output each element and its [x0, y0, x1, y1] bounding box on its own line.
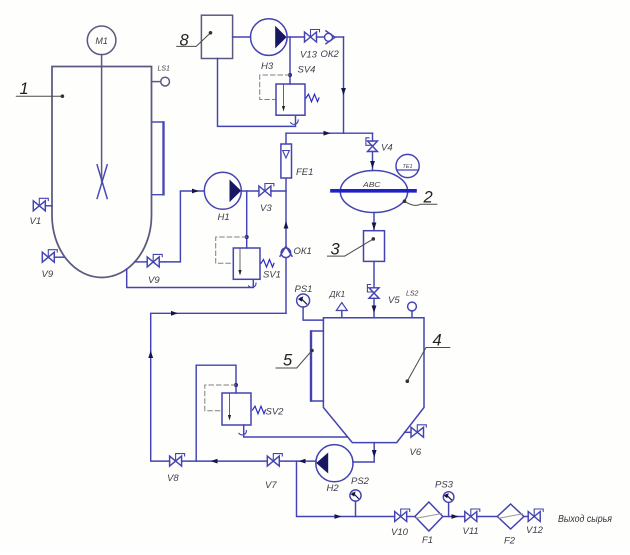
agitator X: [97, 165, 107, 199]
svg-text:2: 2: [423, 189, 433, 207]
wire V3 to riser: [271, 190, 286, 192]
main header wire FE1 to V4 drop: [286, 132, 373, 134]
svg-text:V13: V13: [300, 50, 318, 61]
valve V12: [528, 512, 540, 522]
agitator shaft: [101, 55, 103, 182]
level switch LS1: [152, 81, 161, 83]
SV2 outlet wire to tank 4: [244, 425, 348, 437]
SV1 pilot dashed line: [216, 237, 247, 263]
recirculation wire V8 up and right to riser: [151, 313, 286, 461]
svg-text:V4: V4: [381, 143, 393, 154]
svg-text:V1: V1: [30, 216, 42, 227]
flow arrow into H1: [192, 189, 199, 194]
svg-text:Н2: Н2: [327, 483, 340, 494]
svg-text:PS1: PS1: [295, 284, 313, 295]
wire vessel 2 to box 3: [373, 213, 375, 231]
SV2 inlet branch: [196, 365, 236, 461]
svg-text:1: 1: [20, 80, 29, 98]
junction dot SV4 pilot: [288, 73, 292, 77]
junction dot SV2 pilot: [234, 383, 238, 387]
svg-text:3: 3: [331, 241, 341, 259]
SV4 outlet wire to box 8: [218, 59, 296, 127]
wire H1 to V3: [241, 190, 259, 192]
svg-text:V7: V7: [265, 480, 277, 491]
valve V3: [259, 186, 271, 196]
svg-text:F2: F2: [504, 536, 516, 547]
pump H1: [204, 172, 241, 209]
svg-text:ОК2: ОК2: [321, 49, 340, 60]
flow arrow up: [284, 221, 289, 229]
SV2 outlet arc tick: [239, 431, 247, 435]
svg-text:ДК1: ДК1: [329, 289, 346, 299]
wire V9 right to H1: [159, 191, 204, 262]
breather DK1: [341, 311, 343, 318]
svg-text:V6: V6: [410, 447, 422, 458]
svg-text:V9: V9: [42, 269, 54, 280]
svg-text:АВС: АВС: [362, 180, 381, 189]
flow arrow down: [341, 88, 346, 96]
pressure gauge PS3: [448, 502, 450, 516]
svg-text:PS3: PS3: [435, 480, 454, 491]
wire V11 to F2: [477, 516, 498, 518]
flow meter FE1: [281, 144, 292, 178]
svg-text:LS1: LS1: [158, 66, 171, 73]
box 3: [364, 231, 385, 262]
SV2 pilot dashed line: [205, 385, 236, 411]
valve V13: [305, 32, 317, 42]
thick level line in vessel 2: [332, 189, 415, 193]
label 3 leader: [328, 239, 374, 256]
valve V4 drop: [372, 133, 374, 141]
svg-text:М1: М1: [95, 36, 108, 46]
riser wire FE1/OK1: [285, 133, 287, 313]
wire F1 to V11: [443, 516, 465, 518]
motor M1: [87, 26, 116, 55]
check valve OK1: [281, 248, 291, 258]
svg-text:ТЕ1: ТЕ1: [402, 164, 412, 170]
pressure gauge PS2: [355, 501, 357, 517]
label 5 leader: [276, 351, 312, 369]
wire F2 to V12: [524, 516, 528, 518]
SV4 pilot dashed line: [260, 75, 290, 100]
valve V7: [267, 456, 279, 466]
label 8 leader: [177, 33, 211, 47]
svg-text:V12: V12: [526, 525, 544, 536]
SV4 spring: [306, 94, 319, 102]
valve V4: [368, 141, 378, 152]
vessel 2 ellipse: [340, 171, 407, 213]
junction dot SV1 pilot: [245, 235, 249, 239]
filter F1: [415, 502, 443, 531]
svg-text:V5: V5: [388, 295, 400, 306]
wire V4 to vessel 2: [372, 152, 374, 171]
SV1 outlet arc tick: [249, 283, 257, 287]
vessel 1 body: [52, 67, 152, 278]
label 4 leader: [407, 348, 450, 382]
pump H2: [316, 445, 353, 482]
branch down to product line: [297, 461, 395, 516]
svg-text:4: 4: [433, 332, 442, 350]
flow arrow right: [324, 131, 331, 136]
svg-text:5: 5: [283, 352, 293, 370]
wire H2 to V7: [279, 460, 316, 462]
valve V11: [465, 512, 477, 522]
tank 4 body: [323, 318, 424, 443]
solenoid valve SV4 body: [276, 84, 305, 115]
wire V5 to tank 4: [373, 298, 375, 317]
valve V10: [395, 512, 407, 522]
SV1 outlet wire: [127, 269, 254, 288]
valve V9 right: [135, 261, 147, 263]
SV4 outlet arc tick: [291, 120, 299, 124]
valve V6: [405, 431, 412, 433]
svg-text:PS2: PS2: [351, 476, 370, 487]
svg-text:V8: V8: [167, 473, 179, 484]
solenoid valve SV1 body: [233, 248, 260, 279]
svg-text:V11: V11: [463, 526, 479, 537]
svg-text:SV4: SV4: [298, 65, 316, 76]
wire V7 to V8: [182, 460, 268, 462]
svg-text:F1: F1: [422, 535, 433, 546]
jacket 5 on tank 4: [311, 331, 323, 401]
level switch LS2: [411, 311, 413, 318]
filter F2: [497, 504, 524, 529]
jacket on vessel 1: [152, 122, 163, 195]
wire box 8 to H3: [233, 36, 251, 38]
svg-text:LS2: LS2: [406, 291, 419, 298]
svg-text:V9: V9: [148, 275, 160, 286]
svg-text:8: 8: [180, 32, 190, 50]
SV4 inlet branch: [289, 37, 291, 84]
wire OK2 down to main junction: [343, 37, 345, 133]
valve V8: [170, 456, 182, 466]
SV1 spring: [261, 260, 274, 268]
SV2 spring: [253, 406, 266, 414]
wire V10 to F1: [407, 516, 415, 518]
svg-text:V3: V3: [260, 203, 272, 214]
valve V1: [45, 205, 52, 207]
label 1 leader: [16, 95, 62, 97]
sensor TE1: [396, 154, 419, 177]
box 8: [201, 15, 232, 58]
svg-text:ОК1: ОК1: [294, 246, 312, 257]
svg-text:Выход сырья: Выход сырья: [558, 514, 613, 525]
pressure gauge PS1: [303, 307, 323, 320]
valve V5: [369, 288, 379, 299]
svg-text:SV2: SV2: [266, 407, 285, 418]
tank 4 outlet wire to H2: [353, 443, 374, 462]
label 2 leader: [405, 201, 437, 205]
solenoid valve SV2 body: [222, 393, 251, 425]
solenoid valve SV1 branch wire: [246, 191, 248, 248]
pump H3: [250, 19, 287, 56]
svg-text:Н1: Н1: [218, 212, 230, 223]
valve V9 left: [54, 256, 64, 258]
svg-text:Н3: Н3: [261, 61, 274, 72]
svg-text:V10: V10: [391, 527, 409, 538]
svg-text:FE1: FE1: [296, 167, 313, 178]
svg-text:SV1: SV1: [263, 270, 281, 281]
wire box 3 to V5: [373, 261, 375, 287]
wire H3 to V13: [287, 36, 304, 38]
check valve OK2: [317, 36, 325, 38]
